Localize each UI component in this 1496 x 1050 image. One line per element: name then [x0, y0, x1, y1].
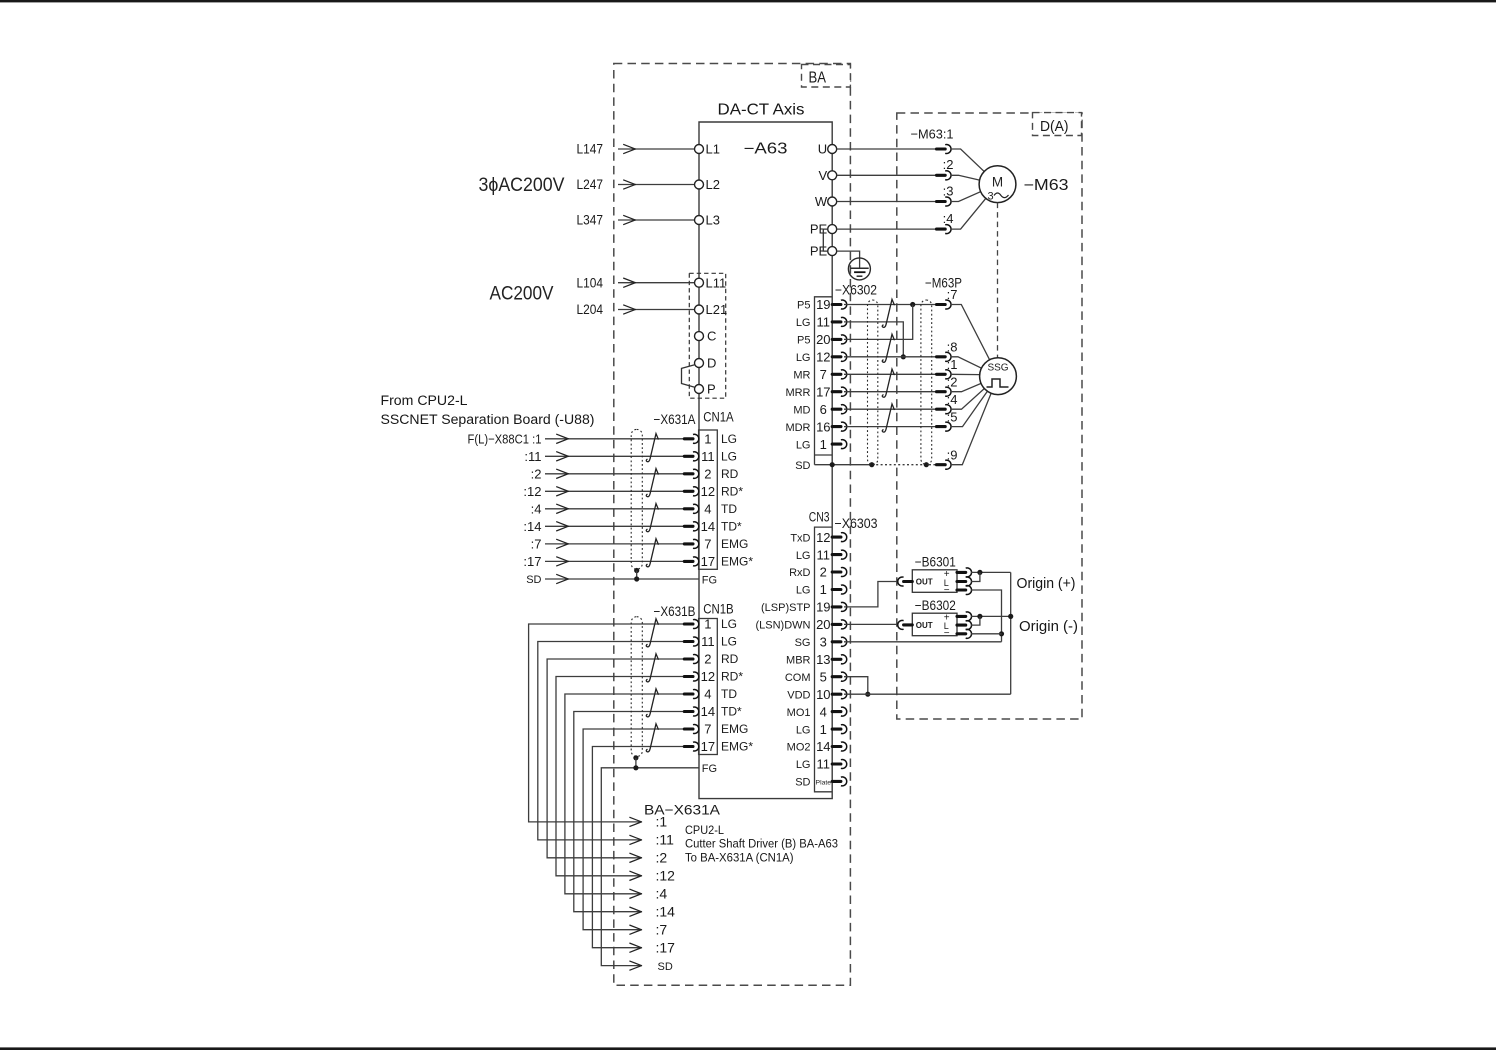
terminal V — [828, 171, 837, 180]
svg-text:7: 7 — [704, 537, 711, 552]
svg-text:1: 1 — [820, 437, 827, 452]
wire :12 to CN1A-12 — [545, 490, 684, 492]
pin -B6302 OUT — [898, 620, 913, 629]
wire -M63:4 to motor — [950, 184, 997, 229]
svg-text:D(A): D(A) — [1040, 119, 1069, 135]
pin CN1B-4 (TD) — [684, 690, 699, 699]
encoder connector box on drive (CN2) — [815, 297, 833, 465]
servo drive -A63 outline — [699, 122, 832, 799]
junction dot SD at second shield — [924, 462, 929, 467]
svg-text:TxD: TxD — [790, 532, 810, 544]
wire MD 6 to -M63P:4 — [844, 408, 937, 410]
terminal L11 — [695, 278, 704, 287]
junction dot P5 node — [910, 302, 915, 307]
wire CN1B-17 loopback — [592, 747, 684, 948]
svg-text:C: C — [707, 329, 716, 344]
svg-text:SD: SD — [795, 460, 810, 472]
twisted pair mark CN1B RD/RD* — [646, 654, 658, 682]
svg-text:V: V — [819, 168, 828, 183]
wire P5 19 to -M63P:7 — [844, 304, 937, 306]
svg-text:TD*: TD* — [721, 705, 742, 719]
label box BA — [802, 65, 851, 88]
svg-text:4: 4 — [820, 704, 827, 719]
svg-text:MR: MR — [793, 370, 810, 382]
svg-text:CN1A: CN1A — [703, 410, 734, 425]
origin sensor -B6301 body — [912, 570, 957, 593]
wire CN1B-1 loopback — [529, 624, 685, 822]
supply riser VDD to sensors — [1010, 572, 1012, 694]
svg-text:3: 3 — [820, 635, 827, 650]
wire SD shield to CN1A FG — [545, 578, 699, 580]
terminal C — [695, 332, 704, 341]
terminal D — [695, 359, 704, 368]
svg-text::17: :17 — [523, 554, 541, 569]
pin -M63:3 — [937, 197, 952, 206]
svg-text:17: 17 — [701, 739, 715, 754]
shield drain wire SD to -M63P:9 — [815, 464, 872, 466]
svg-text::12: :12 — [656, 868, 676, 884]
pin CN1B-14 (TD*) — [684, 707, 699, 716]
svg-text::2: :2 — [943, 157, 954, 172]
wire -M63P:9 to encoder — [950, 376, 998, 465]
svg-text::4: :4 — [531, 501, 542, 516]
wire L247 input — [618, 184, 694, 186]
svg-text:MD: MD — [793, 404, 810, 416]
cable shield of -X631A cable — [631, 429, 642, 569]
svg-text:17: 17 — [701, 554, 715, 569]
terminal L21 — [695, 305, 704, 314]
wire CN1B-7 loopback — [583, 729, 684, 930]
svg-text:CN3: CN3 — [809, 510, 830, 525]
wire CN1B-12 loopback — [556, 677, 684, 876]
wire CN1B-2 loopback — [547, 659, 684, 858]
svg-text:L347: L347 — [577, 213, 604, 228]
wire (LSP)STP 19 to -B6301 — [844, 582, 898, 607]
svg-text:LG: LG — [721, 432, 737, 446]
svg-text:LG: LG — [721, 635, 737, 649]
wire CN1B-11 loopback — [538, 642, 685, 840]
pin -M63:1 — [937, 145, 952, 154]
svg-text:F(L)−X88C1 :1: F(L)−X88C1 :1 — [468, 431, 542, 446]
svg-text:5: 5 — [820, 669, 827, 684]
twisted pair mark CN1A TD/TD* — [646, 504, 658, 532]
svg-text:14: 14 — [816, 739, 830, 754]
pin CN1A-1 (LG) — [684, 434, 699, 443]
wire -M63:2 to motor — [950, 175, 997, 184]
enclosure BA (dashed boundary) — [614, 64, 851, 986]
svg-text:19: 19 — [816, 297, 830, 312]
pin CN1B-17 (EMG*) — [684, 742, 699, 751]
svg-text:SG: SG — [795, 637, 811, 649]
pin CN1B-11 (LG) — [684, 637, 699, 646]
svg-text:P5: P5 — [797, 335, 810, 347]
wire MR 7 to -M63P:1 — [844, 373, 937, 375]
terminal L1 — [695, 145, 704, 154]
svg-text:MDR: MDR — [785, 422, 810, 434]
svg-text:(LSP)STP: (LSP)STP — [761, 602, 811, 614]
junction dot -B6301 +/L tie — [977, 570, 982, 575]
pin -B6302 + — [957, 612, 972, 621]
svg-text::4: :4 — [943, 211, 954, 226]
svg-text:L247: L247 — [577, 177, 604, 192]
svg-text:14: 14 — [701, 519, 715, 534]
wire -M63:3 to motor — [950, 184, 997, 201]
svg-text::1: :1 — [656, 814, 668, 830]
terminal L3 — [695, 216, 704, 225]
svg-text:−: − — [944, 628, 950, 639]
svg-text:LG: LG — [796, 439, 811, 451]
twisted pair mark CN1B LG/LG — [646, 619, 658, 647]
svg-text::7: :7 — [531, 537, 542, 552]
motor M 3-phase -M63 — [979, 166, 1016, 203]
svg-text:19: 19 — [816, 600, 830, 615]
wire -M63P:2 to encoder — [950, 376, 998, 392]
pin CN1A-7 (EMG) — [684, 539, 699, 548]
svg-text:−X631A: −X631A — [654, 412, 696, 427]
wire CN1B FG loopback — [601, 768, 698, 966]
svg-text:LG: LG — [796, 550, 811, 562]
wire :17 to CN1A-17 — [545, 560, 684, 562]
wire (LSN)DWN 20 to -B6302 — [844, 623, 898, 625]
wire L347 input — [618, 219, 694, 221]
svg-text:EMG: EMG — [721, 722, 748, 736]
svg-text::17: :17 — [656, 940, 676, 956]
svg-text:CPU2-L: CPU2-L — [685, 823, 724, 837]
svg-text:1: 1 — [820, 582, 827, 597]
wire -M63P:1 to encoder — [950, 373, 979, 375]
wire W to -M63:3 — [837, 201, 937, 203]
cable shield of -M63P cable — [921, 300, 932, 465]
svg-text:EMG*: EMG* — [721, 555, 753, 569]
wire -B6302 + node — [971, 615, 1011, 617]
junction dot LG node — [901, 354, 906, 359]
svg-text:−M63:1: −M63:1 — [911, 127, 954, 142]
wire :7 to CN1A-7 — [545, 543, 684, 545]
svg-text:MRR: MRR — [785, 387, 810, 399]
svg-text:RxD: RxD — [789, 567, 810, 579]
svg-text:U: U — [818, 142, 827, 157]
svg-text:D: D — [707, 356, 716, 371]
twisted pair mark P5/LG — [882, 299, 894, 327]
label box D(A) — [1033, 113, 1082, 136]
svg-text:EMG*: EMG* — [721, 740, 753, 754]
svg-text:−X631B: −X631B — [654, 604, 696, 619]
dashed link motor to encoder — [997, 203, 999, 358]
wire PE to -M63:4 — [837, 228, 937, 230]
svg-text:3: 3 — [987, 191, 993, 203]
junction dot riser at -B6302 + — [1008, 614, 1013, 619]
svg-text:1: 1 — [704, 617, 711, 632]
svg-text:11: 11 — [817, 547, 831, 562]
pin -B6301 L — [957, 577, 972, 586]
svg-text::14: :14 — [523, 519, 541, 534]
svg-text:12: 12 — [701, 669, 715, 684]
svg-text::12: :12 — [523, 484, 541, 499]
svg-text:SD: SD — [658, 961, 673, 973]
svg-text:MO2: MO2 — [787, 742, 811, 754]
svg-text:20: 20 — [816, 332, 830, 347]
svg-text:−X6303: −X6303 — [835, 516, 878, 531]
svg-text:W: W — [815, 194, 828, 209]
connector CN1B box — [699, 619, 718, 755]
pin CN1A-2 (RD) — [684, 469, 699, 478]
svg-text::14: :14 — [656, 904, 676, 920]
svg-text:M: M — [992, 175, 1003, 190]
svg-text:LG: LG — [796, 724, 811, 736]
svg-text:14: 14 — [701, 704, 715, 719]
wire MDR 16 to -M63P:5 — [844, 426, 937, 428]
svg-text:P: P — [707, 382, 716, 397]
pin CN1B-7 (EMG) — [684, 725, 699, 734]
terminal PE upper — [828, 225, 837, 234]
svg-text:11: 11 — [701, 634, 715, 649]
wire U to -M63:1 — [837, 148, 937, 150]
twisted pair mark CN1B TD/TD* — [646, 689, 658, 717]
twisted pair mark MD/MDR — [882, 404, 894, 432]
svg-text:7: 7 — [704, 722, 711, 737]
wire V to -M63:2 — [837, 174, 937, 176]
wire P5 20 link up — [844, 305, 913, 340]
svg-text:LG: LG — [796, 317, 811, 329]
wire -B6301 - down to SG — [971, 590, 1002, 642]
pin -B6301 OUT — [898, 577, 913, 586]
wire -B6301 L tie — [971, 572, 980, 581]
svg-text:CN1B: CN1B — [703, 602, 734, 617]
svg-text:SSG: SSG — [987, 363, 1008, 374]
svg-text:BA: BA — [809, 70, 827, 87]
svg-text:1: 1 — [704, 432, 711, 447]
wire -M63P:5 to encoder — [950, 376, 998, 426]
svg-text:LG: LG — [796, 585, 811, 597]
junction dot SD at drive edge — [830, 462, 835, 467]
pin -M63:4 — [937, 225, 952, 234]
wire PE to protective earth — [837, 251, 860, 268]
terminal U — [828, 145, 837, 154]
svg-text:−B6301: −B6301 — [915, 555, 956, 570]
svg-text:AC200V: AC200V — [490, 284, 554, 305]
svg-text:RD*: RD* — [721, 670, 743, 684]
svg-text:L147: L147 — [577, 142, 604, 157]
svg-text:7: 7 — [820, 367, 827, 382]
svg-text::2: :2 — [656, 850, 668, 866]
protective earth symbol — [848, 258, 870, 280]
wire CN1B-4 loopback — [565, 694, 684, 894]
svg-text:Cutter Shaft Driver (B) BA-A63: Cutter Shaft Driver (B) BA-A63 — [685, 837, 838, 851]
wire :14 to CN1A-14 — [545, 525, 684, 527]
pin CN1A-11 (LG) — [684, 452, 699, 461]
svg-text:17: 17 — [816, 384, 830, 399]
svg-text:L21: L21 — [706, 302, 728, 317]
wire -B6302 L tie — [971, 616, 980, 625]
pin -M63:2 — [937, 171, 952, 180]
svg-text:−: − — [944, 585, 950, 596]
svg-text:RD: RD — [721, 467, 739, 481]
svg-text:Plate: Plate — [816, 779, 832, 786]
svg-text:SD: SD — [526, 574, 541, 586]
wire -B6301 + node — [971, 571, 1011, 573]
twisted pair mark CN1A LG/LG — [646, 434, 658, 462]
origin sensor -B6302 body — [912, 613, 957, 636]
cable shield of -X631B cable — [631, 617, 642, 757]
svg-text:L2: L2 — [706, 177, 720, 192]
junction dot -B6302 - on SG branch — [999, 631, 1004, 636]
svg-text:RD*: RD* — [721, 485, 743, 499]
twisted pair mark CN1A EMG/EMG* — [646, 539, 658, 567]
wire -M63P:7 to encoder — [950, 305, 998, 377]
svg-text:L3: L3 — [706, 213, 720, 228]
dashed box around control power terminals — [689, 273, 725, 398]
enclosure D(A) (dashed boundary) — [897, 113, 1082, 719]
svg-text::11: :11 — [524, 449, 541, 464]
cable shield of -X6302 cable — [868, 300, 878, 465]
pin -B6302 - — [957, 629, 972, 638]
svg-text:L204: L204 — [577, 302, 604, 317]
svg-text:13: 13 — [816, 652, 830, 667]
svg-text:6: 6 — [820, 402, 827, 417]
wire :4 to CN1A-4 — [545, 508, 684, 510]
jumper D-P — [682, 365, 695, 388]
svg-text:Origin (-): Origin (-) — [1019, 618, 1078, 635]
svg-text::4: :4 — [656, 886, 668, 902]
svg-text:10: 10 — [816, 687, 830, 702]
wire -M63P:4 to encoder — [950, 376, 998, 409]
terminal W — [828, 197, 837, 206]
svg-text:2: 2 — [704, 652, 711, 667]
svg-text:To BA-X631A (CN1A): To BA-X631A (CN1A) — [685, 850, 794, 864]
twisted pair mark CN1B EMG/EMG* — [646, 724, 658, 752]
svg-text:16: 16 — [816, 419, 830, 434]
pin CN1A-12 (RD*) — [684, 487, 699, 496]
twisted pair mark CN1A RD/RD* — [646, 469, 658, 497]
twisted pair mark P5/LG 2 — [882, 334, 894, 362]
shield drain junction CN1A — [634, 568, 639, 573]
terminal L2 — [695, 180, 704, 189]
svg-text:TD: TD — [721, 687, 737, 701]
svg-text:2: 2 — [704, 467, 711, 482]
junction dot -B6302 +/L tie — [977, 614, 982, 619]
svg-text::7: :7 — [656, 922, 668, 938]
wire MRR 17 to -M63P:2 — [844, 391, 937, 393]
pin CN1B-1 (LG) — [684, 620, 699, 629]
svg-text:SSCNET Separation Board (-U88): SSCNET Separation Board (-U88) — [381, 412, 595, 428]
pin -B6302 L — [957, 621, 972, 630]
svg-text:VDD: VDD — [787, 689, 810, 701]
wire :11 to CN1A-11 — [545, 455, 684, 457]
svg-text:−X6302: −X6302 — [835, 283, 877, 298]
svg-text:−B6302: −B6302 — [915, 598, 956, 613]
connector CN3 box — [815, 527, 833, 792]
svg-text:MBR: MBR — [786, 655, 811, 667]
connector CN1A box — [699, 430, 718, 569]
pin CN1B-12 (RD*) — [684, 672, 699, 681]
wire -M63:1 to motor — [950, 149, 997, 184]
svg-text:11: 11 — [701, 449, 715, 464]
svg-text:−A63: −A63 — [744, 141, 788, 158]
svg-text:12: 12 — [816, 350, 830, 365]
svg-text:11: 11 — [817, 315, 831, 330]
shield drain junction CN1B — [633, 755, 638, 760]
wire F(L)&#8722;X88C1 :1 to CN1A-1 — [545, 438, 684, 440]
svg-text:11: 11 — [817, 757, 831, 772]
pin CN1B-2 (RD) — [684, 655, 699, 664]
terminal P — [695, 385, 704, 394]
pin -B6301 - — [957, 586, 972, 595]
svg-text:2: 2 — [820, 565, 827, 580]
wire LG 12 to -M63P:8 — [844, 356, 937, 358]
wire -M63P:8 to encoder — [950, 357, 998, 376]
svg-text:P5: P5 — [797, 300, 810, 312]
svg-text:1: 1 — [820, 722, 827, 737]
wire LG 11 link down — [844, 322, 903, 357]
svg-text:MO1: MO1 — [787, 707, 811, 719]
svg-text::2: :2 — [531, 466, 542, 481]
svg-text:Origin (+): Origin (+) — [1017, 575, 1076, 592]
svg-text:12: 12 — [816, 530, 830, 545]
pin CN1A-4 (TD) — [684, 504, 699, 513]
svg-text:EMG: EMG — [721, 537, 748, 551]
pin -B6301 + — [957, 568, 972, 577]
svg-text:LG: LG — [721, 617, 737, 631]
svg-text:COM: COM — [785, 672, 811, 684]
svg-text:L104: L104 — [577, 275, 604, 290]
svg-text:4: 4 — [704, 687, 711, 702]
wire SG 3 — [844, 641, 1002, 643]
pin CN1A-17 (EMG*) — [684, 557, 699, 566]
svg-text:12: 12 — [701, 484, 715, 499]
svg-text:−M63: −M63 — [1024, 177, 1069, 194]
wire -B6302 - link — [971, 633, 1002, 635]
wire VDD 10 — [844, 693, 1011, 695]
svg-text:3ϕAC200V: 3ϕAC200V — [479, 175, 565, 196]
PE-PE bracket link — [823, 229, 828, 251]
svg-text:RD: RD — [721, 652, 739, 666]
svg-text:DA-CT Axis: DA-CT Axis — [718, 102, 805, 119]
encoder SSG — [980, 358, 1017, 395]
svg-text:SD: SD — [795, 777, 810, 789]
wire COM 5 — [844, 677, 868, 695]
svg-text:LG: LG — [721, 450, 737, 464]
svg-text:LG: LG — [796, 352, 811, 364]
wire CN1B-14 loopback — [574, 712, 685, 912]
svg-text:OUT: OUT — [916, 578, 933, 587]
svg-text:TD: TD — [721, 502, 737, 516]
svg-text:L11: L11 — [706, 275, 727, 290]
svg-text:(LSN)DWN: (LSN)DWN — [756, 620, 811, 632]
svg-text::3: :3 — [943, 183, 954, 198]
svg-text:4: 4 — [704, 502, 711, 517]
twisted pair mark MR/MRR — [882, 369, 894, 397]
svg-text:FG: FG — [702, 574, 717, 586]
wire L204 input — [618, 309, 694, 311]
svg-text:L1: L1 — [706, 142, 720, 157]
svg-text:TD*: TD* — [721, 520, 742, 534]
wire :2 to CN1A-2 — [545, 473, 684, 475]
svg-text::11: :11 — [656, 832, 675, 848]
terminal PE lower — [828, 247, 837, 256]
wire L104 input — [618, 282, 694, 284]
junction dot SD at first shield — [869, 462, 874, 467]
wire L147 input — [618, 148, 694, 150]
junction dot COM-VDD — [865, 692, 870, 697]
svg-text:OUT: OUT — [916, 621, 933, 630]
svg-text:LG: LG — [796, 759, 811, 771]
svg-text:20: 20 — [816, 617, 830, 632]
pin CN1A-14 (TD*) — [684, 522, 699, 531]
svg-text:From CPU2-L: From CPU2-L — [381, 393, 468, 409]
svg-text:FG: FG — [702, 763, 717, 775]
